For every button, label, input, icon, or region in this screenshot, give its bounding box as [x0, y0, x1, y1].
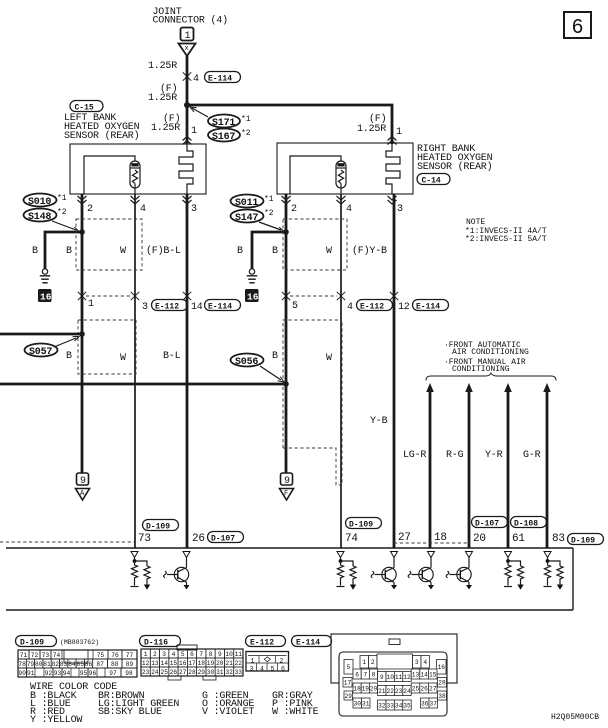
svg-text:(MB803762): (MB803762) — [60, 639, 99, 646]
svg-text:14: 14 — [191, 302, 203, 313]
dashed option box upper left — [76, 219, 142, 270]
svg-text:E-112: E-112 — [155, 303, 179, 312]
ECU input triangle pin 61 — [505, 552, 512, 558]
ground symbol right — [249, 269, 254, 274]
right sensor internal wire — [290, 156, 341, 194]
svg-text:19: 19 — [207, 660, 215, 667]
svg-text:1: 1 — [396, 127, 402, 138]
resistor pair under pin 74 — [337, 558, 357, 590]
connector label D-109 over pin 74 — [346, 518, 382, 529]
exit chevrons pin 4 right — [337, 196, 346, 204]
transistor under pin 20 — [446, 558, 472, 590]
ECU input triangle pin 73 — [131, 552, 138, 558]
connector D-116 pin grid — [141, 645, 243, 680]
svg-text:3: 3 — [142, 302, 148, 313]
svg-text:G-R: G-R — [523, 450, 541, 461]
left oxygen sensor U box — [70, 144, 206, 194]
svg-text:1: 1 — [362, 659, 366, 666]
left heater element — [179, 144, 193, 194]
svg-text:NOTE: NOTE — [466, 218, 485, 227]
svg-text:1: 1 — [185, 31, 191, 42]
connector E-114 pin grid — [343, 654, 447, 710]
joint connector triangle A left — [76, 489, 90, 501]
svg-text:C-14: C-14 — [422, 177, 441, 186]
svg-text:73: 73 — [138, 533, 151, 545]
svg-text:10: 10 — [387, 674, 395, 681]
dashed link between inline connectors right — [290, 295, 337, 297]
svg-text:S171: S171 — [212, 118, 235, 129]
svg-text:S056: S056 — [235, 357, 258, 368]
svg-text:32: 32 — [225, 669, 233, 676]
leader arrow from S057 to bus node — [54, 338, 76, 347]
svg-text:73: 73 — [42, 652, 50, 659]
splice S011 — [231, 195, 264, 208]
svg-text:Y-R: Y-R — [485, 450, 503, 461]
svg-text:20: 20 — [216, 660, 224, 667]
wire Y-B from pin 3 right down to ECU — [393, 194, 396, 548]
leader arrow from S171 to junction — [192, 108, 208, 117]
svg-text:3: 3 — [250, 665, 254, 672]
connector E-114 housing drawing — [331, 634, 457, 716]
svg-text:12: 12 — [398, 302, 410, 313]
svg-text:32: 32 — [378, 702, 386, 709]
svg-text:AIR CONDITIONING: AIR CONDITIONING — [452, 348, 529, 357]
wire B from pin 2 right down — [285, 194, 288, 473]
svg-text:38: 38 — [438, 693, 446, 700]
ECU box right edge — [572, 548, 574, 610]
inline connector chevrons right wire2 joint 5 — [282, 292, 290, 300]
splice S056 — [231, 354, 264, 367]
svg-text:2: 2 — [371, 659, 375, 666]
svg-text:D-107: D-107 — [475, 520, 499, 529]
A/C wire Y-R with arrowhead — [504, 383, 512, 392]
svg-text:9: 9 — [80, 476, 86, 487]
svg-text:*2: *2 — [264, 209, 274, 218]
svg-text:79: 79 — [27, 661, 35, 668]
svg-text:30: 30 — [354, 700, 362, 707]
svg-text:R-G: R-G — [446, 450, 464, 461]
svg-text:S057: S057 — [29, 347, 52, 358]
svg-text:1: 1 — [88, 299, 94, 310]
brace over A/C wires — [426, 373, 556, 380]
connector label E-114 — [292, 636, 332, 648]
svg-text:71: 71 — [20, 652, 28, 659]
svg-text:20: 20 — [370, 685, 378, 692]
svg-text:W :WHITE: W :WHITE — [272, 707, 319, 718]
splice S057 — [25, 344, 58, 357]
connector label C-14 — [417, 174, 450, 185]
svg-text:*2: *2 — [241, 129, 251, 138]
transistor under pin 26 — [164, 558, 190, 590]
inline connector chevrons right wire3 pin 12 E-114 — [390, 292, 398, 300]
svg-text:34: 34 — [395, 702, 403, 709]
svg-text:94: 94 — [63, 670, 71, 677]
connector label D-107 over pin 26 — [208, 532, 244, 543]
splice S010 — [24, 194, 57, 207]
svg-text:B: B — [66, 351, 72, 362]
ground symbol left — [42, 269, 47, 274]
splice S148 — [24, 209, 57, 222]
right heater element — [386, 144, 400, 194]
svg-text:W: W — [120, 353, 126, 364]
svg-text:1: 1 — [191, 126, 197, 137]
svg-text:B-L: B-L — [163, 351, 181, 362]
svg-text:LG-R: LG-R — [403, 450, 426, 461]
svg-text:*2:INVECS-II 5A/T: *2:INVECS-II 5A/T — [465, 235, 547, 244]
svg-text:26: 26 — [420, 685, 428, 692]
svg-text:W: W — [326, 353, 332, 364]
leader arrow from S056 to bus2 node — [260, 366, 281, 380]
svg-text:6: 6 — [572, 16, 583, 38]
svg-text:S167: S167 — [212, 132, 235, 143]
svg-text:4: 4 — [260, 665, 264, 672]
svg-text:26: 26 — [170, 669, 178, 676]
svg-text:S147: S147 — [235, 213, 258, 224]
node splice on right wire 2 — [283, 229, 289, 235]
svg-text:E-114: E-114 — [208, 303, 232, 312]
svg-text:4: 4 — [172, 651, 176, 658]
svg-text:5: 5 — [292, 301, 298, 312]
svg-text:6: 6 — [281, 665, 285, 672]
svg-text:2: 2 — [87, 204, 93, 215]
dashed link between inline connectors left — [86, 295, 131, 297]
svg-text:16: 16 — [179, 660, 187, 667]
svg-text:S011: S011 — [235, 198, 258, 209]
svg-text:83: 83 — [60, 661, 68, 668]
svg-text:F: F — [284, 490, 288, 498]
svg-text:15: 15 — [170, 660, 178, 667]
splice S147 — [231, 210, 264, 223]
svg-text:27: 27 — [179, 669, 187, 676]
svg-text:2: 2 — [280, 657, 284, 664]
svg-text:D-109: D-109 — [349, 521, 373, 530]
svg-text:D-109: D-109 — [571, 537, 595, 546]
svg-text:B: B — [272, 351, 278, 362]
svg-text:88: 88 — [111, 661, 119, 668]
svg-text:9: 9 — [284, 476, 290, 487]
svg-text:77: 77 — [126, 652, 134, 659]
wire 1.25R from joint connector down — [186, 56, 189, 105]
svg-text:S148: S148 — [28, 212, 51, 223]
node bus1 on wire 2 — [79, 331, 85, 337]
svg-text:37: 37 — [430, 700, 438, 707]
svg-text:83: 83 — [552, 533, 565, 545]
svg-text:18: 18 — [353, 685, 361, 692]
wire from junction down to left sensor pin 1 — [186, 105, 189, 144]
A/C wire G-R with arrowhead — [543, 383, 551, 392]
svg-text:17: 17 — [188, 660, 196, 667]
svg-text:4: 4 — [140, 204, 146, 215]
inline connector chevrons wire2 joint 1 — [78, 292, 86, 300]
inline connector chevrons right wire4 pin 4 E-112 — [337, 292, 345, 300]
svg-text:Y-B: Y-B — [370, 416, 388, 427]
exit chevrons pin 4 — [131, 196, 140, 204]
svg-text:*1: *1 — [57, 194, 67, 203]
svg-text:2: 2 — [153, 651, 157, 658]
resistor pair under pin 73 — [131, 558, 151, 590]
svg-text:16: 16 — [438, 664, 446, 671]
svg-text:26: 26 — [192, 533, 205, 545]
inline connector chevrons wire4 pin 3 E-112 — [131, 292, 139, 300]
svg-text:33: 33 — [387, 702, 395, 709]
svg-text:E-112: E-112 — [360, 303, 384, 312]
svg-text:CONDITIONING: CONDITIONING — [452, 365, 510, 374]
svg-text:29: 29 — [345, 693, 353, 700]
svg-text:S010: S010 — [28, 197, 51, 208]
svg-text:14: 14 — [420, 671, 428, 678]
svg-text:7: 7 — [363, 671, 367, 678]
svg-text:36: 36 — [421, 700, 429, 707]
wire W from pin 4 right down to ECU — [340, 194, 342, 548]
svg-text:89: 89 — [126, 661, 134, 668]
svg-text:1.25R: 1.25R — [151, 123, 180, 134]
svg-text:4: 4 — [347, 302, 353, 313]
svg-text:61: 61 — [512, 533, 525, 545]
resistor pair under pin 61 — [504, 558, 524, 590]
page number box 6 — [564, 12, 591, 38]
svg-text:28: 28 — [188, 669, 196, 676]
svg-text:V :VIOLET: V :VIOLET — [202, 707, 254, 718]
svg-text:25: 25 — [412, 685, 420, 692]
svg-text:84: 84 — [68, 661, 76, 668]
splice S167 — [208, 129, 240, 142]
svg-text:C-15: C-15 — [75, 104, 94, 113]
svg-text:90: 90 — [19, 670, 27, 677]
svg-text:W: W — [326, 246, 332, 257]
splice S171 — [208, 115, 240, 128]
svg-text:86: 86 — [85, 661, 93, 668]
joint connector triangle F right — [280, 489, 294, 501]
svg-text:72: 72 — [31, 652, 39, 659]
connector label C-15 — [70, 101, 103, 112]
svg-text:(F)B-L: (F)B-L — [146, 245, 181, 257]
svg-text:35: 35 — [403, 702, 411, 709]
exit chevrons pin 2 — [78, 196, 87, 204]
svg-text:74: 74 — [53, 652, 61, 659]
left sensor element (zirconia cell) — [130, 161, 140, 188]
svg-text:18: 18 — [198, 660, 206, 667]
svg-text:2: 2 — [291, 204, 297, 215]
svg-text:(F)Y-B: (F)Y-B — [352, 245, 387, 257]
A/C wire R-G with arrowhead — [465, 383, 473, 392]
node splice on wire 2 — [79, 229, 85, 235]
svg-text:B: B — [32, 246, 38, 257]
svg-text:17: 17 — [344, 680, 352, 687]
ECU input triangle pin 27 — [391, 552, 398, 558]
connector label E-112 — [246, 636, 286, 648]
joint connector J/C terminal 1 box — [181, 28, 194, 41]
svg-text:4: 4 — [193, 74, 199, 85]
svg-text:27: 27 — [429, 685, 437, 692]
ECU box bottom edge — [6, 609, 573, 611]
svg-text:20: 20 — [473, 533, 486, 545]
ECU input triangle pin 20 — [466, 552, 473, 558]
dashed option box lower left — [78, 320, 136, 374]
svg-text:16: 16 — [247, 292, 259, 303]
connector label D-116 — [140, 636, 181, 648]
svg-text:12: 12 — [142, 660, 150, 667]
svg-text:25: 25 — [161, 669, 169, 676]
svg-text:W: W — [120, 246, 126, 257]
svg-text:14: 14 — [161, 660, 169, 667]
svg-text:D-116: D-116 — [144, 639, 168, 648]
entry chevrons left pin 1 — [183, 137, 192, 145]
svg-text:74: 74 — [345, 533, 358, 545]
svg-text:24: 24 — [403, 688, 411, 695]
svg-text:18: 18 — [434, 532, 447, 544]
resistor pair under pin 83 — [544, 558, 564, 590]
svg-text:D-108: D-108 — [514, 520, 538, 529]
connector label D-109 over pin 73 — [143, 520, 179, 531]
wire B branch to ground — [45, 232, 82, 269]
wire B from pin 2 down — [81, 194, 84, 473]
A/C wire LG-R with arrowhead — [426, 383, 434, 392]
svg-text:7: 7 — [199, 651, 203, 658]
ECU box top edge — [6, 547, 573, 549]
right oxygen sensor U box — [277, 143, 413, 194]
svg-text:93: 93 — [54, 670, 62, 677]
svg-text:95: 95 — [80, 670, 88, 677]
connector label D-107 over pin 20 — [472, 517, 508, 528]
svg-text:87: 87 — [96, 661, 104, 668]
svg-text:1.25R: 1.25R — [148, 61, 177, 72]
svg-text:10: 10 — [225, 651, 233, 658]
svg-text:30: 30 — [207, 669, 215, 676]
inline connector chevrons 4 (E-114) — [183, 72, 191, 80]
svg-text:5: 5 — [271, 665, 275, 672]
svg-text:D-107: D-107 — [211, 535, 235, 544]
connector label D-108 over pin 61 — [511, 517, 547, 528]
svg-text:28: 28 — [438, 680, 446, 687]
wire B branch to ground right — [252, 232, 286, 269]
svg-text:76: 76 — [111, 652, 119, 659]
svg-text:B: B — [66, 246, 72, 257]
svg-text:22: 22 — [387, 688, 395, 695]
svg-text:E-114: E-114 — [296, 639, 320, 648]
svg-text:5: 5 — [181, 651, 185, 658]
svg-text:96: 96 — [89, 670, 97, 677]
svg-text:97: 97 — [109, 670, 117, 677]
dashed continuation line mid — [394, 542, 470, 544]
wire W from pin 4 down to ECU — [134, 194, 136, 548]
svg-text:12: 12 — [403, 674, 411, 681]
exit chevrons pin 3 right — [388, 196, 397, 204]
svg-text:29: 29 — [198, 669, 206, 676]
svg-text:21: 21 — [225, 660, 233, 667]
svg-text:13: 13 — [151, 660, 159, 667]
svg-text:1.25R: 1.25R — [148, 93, 177, 104]
dashed continuation line left — [0, 541, 134, 543]
svg-text:91: 91 — [27, 670, 35, 677]
svg-text:SENSOR (REAR): SENSOR (REAR) — [417, 161, 492, 173]
svg-text:92: 92 — [45, 670, 53, 677]
svg-text:23: 23 — [395, 688, 403, 695]
svg-text:3: 3 — [162, 651, 166, 658]
svg-text:80: 80 — [35, 661, 43, 668]
svg-text:22: 22 — [235, 660, 243, 667]
svg-text:E-114: E-114 — [208, 75, 232, 84]
svg-text:*1: *1 — [241, 115, 251, 124]
ECU input triangle pin 74 — [337, 552, 344, 558]
svg-text:E-114: E-114 — [416, 303, 440, 312]
bus wire 2 from left edge — [0, 383, 286, 386]
svg-text:B: B — [237, 246, 243, 257]
connector E-112 pin grid — [246, 652, 289, 673]
svg-text:98: 98 — [125, 670, 133, 677]
exit chevrons pin 3 — [183, 196, 192, 204]
svg-text:x: x — [185, 45, 189, 53]
svg-text:11: 11 — [395, 674, 403, 681]
bus wire 1 from left edge — [0, 333, 82, 336]
svg-text:23: 23 — [142, 669, 150, 676]
svg-text:11: 11 — [235, 651, 243, 658]
svg-text:8: 8 — [372, 671, 376, 678]
svg-text:27: 27 — [398, 532, 411, 544]
svg-text:1: 1 — [144, 651, 148, 658]
svg-text:8: 8 — [209, 651, 213, 658]
ECU input triangle pin 26 — [183, 552, 190, 558]
connector label D-109 right of pin 83 — [568, 534, 604, 545]
dashed option region lower right (L shape) — [283, 320, 342, 485]
svg-text:19: 19 — [362, 685, 370, 692]
svg-text:SENSOR (REAR): SENSOR (REAR) — [64, 130, 139, 142]
svg-text:D-109: D-109 — [20, 639, 44, 648]
connector label E-114 (top) — [205, 72, 241, 83]
node bus2 on right wire 2 — [283, 381, 289, 387]
joint connector triangle X — [179, 44, 196, 57]
svg-text:5: 5 — [347, 664, 351, 671]
svg-text:3: 3 — [415, 659, 419, 666]
svg-text:1.25R: 1.25R — [357, 124, 386, 135]
ECU input triangle pin 83 — [544, 552, 551, 558]
svg-text:85: 85 — [77, 661, 85, 668]
connector D-109 pin grid — [18, 650, 137, 677]
leader arrow from S147 to node right — [259, 222, 281, 230]
svg-text:3: 3 — [397, 204, 403, 215]
ECU input triangle pin 18 — [428, 552, 435, 558]
svg-text:13: 13 — [412, 671, 420, 678]
svg-text:33: 33 — [235, 669, 243, 676]
svg-text:9: 9 — [380, 674, 384, 681]
svg-text:SB:SKY BLUE: SB:SKY BLUE — [98, 707, 162, 718]
svg-text:15: 15 — [429, 671, 437, 678]
svg-text:4: 4 — [423, 659, 427, 666]
svg-text:16: 16 — [40, 292, 52, 303]
transistor under pin 18 — [408, 558, 434, 590]
svg-text:31: 31 — [362, 700, 370, 707]
ground point 16 box right — [245, 289, 259, 302]
dashed option box upper right — [283, 219, 347, 270]
svg-text:78: 78 — [18, 661, 26, 668]
svg-text:B: B — [272, 246, 278, 257]
svg-text:75: 75 — [97, 652, 105, 659]
svg-text:E-112: E-112 — [250, 639, 274, 648]
leader arrow from S148 to node — [52, 221, 76, 230]
svg-text:*2: *2 — [57, 208, 67, 217]
svg-text:CONNECTOR (4): CONNECTOR (4) — [153, 15, 228, 27]
svg-text:6: 6 — [190, 651, 194, 658]
svg-text:24: 24 — [151, 669, 159, 676]
svg-text:6: 6 — [355, 671, 359, 678]
svg-text:1: 1 — [251, 657, 255, 664]
right sensor element (zirconia cell) — [336, 161, 346, 188]
svg-text:9: 9 — [218, 651, 222, 658]
svg-text:21: 21 — [378, 688, 386, 695]
left sensor internal wire — [84, 156, 135, 194]
svg-text:82: 82 — [52, 661, 60, 668]
connector label D-109 — [16, 636, 100, 648]
svg-text:31: 31 — [216, 669, 224, 676]
